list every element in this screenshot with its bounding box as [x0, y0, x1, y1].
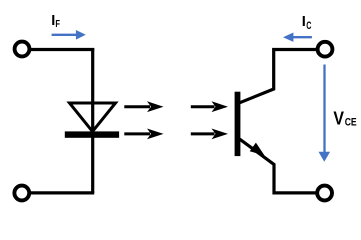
current arrow I_F (blue): [52, 30, 86, 40]
label I_F: [51, 13, 60, 30]
phototransistor Q1: base bar: [235, 92, 241, 156]
phototransistor Q1: emitter arrowhead: [250, 143, 265, 156]
LED D1: cathode bar: [65, 131, 119, 137]
current arrow I_C (blue): [283, 33, 312, 42]
voltage arrow V_CE (blue): [319, 65, 331, 162]
svg-text:CE: CE: [345, 116, 357, 128]
wire: left vertical through LED: [91, 48, 94, 193]
svg-text:I: I: [302, 14, 306, 30]
LED D1: triangle (anode): [70, 103, 116, 132]
label V_CE: [333, 108, 356, 129]
light emission arrow 2 (lower, from LED): [124, 129, 163, 140]
terminal (emitter, bottom-right): [317, 186, 332, 201]
phototransistor Q1: collector lead: [240, 50, 317, 103]
svg-text:F: F: [55, 19, 60, 30]
terminal (LED anode, top-left): [15, 42, 30, 57]
wire: top-left horizontal from anode terminal: [31, 48, 94, 51]
wire: bottom-left horizontal to cathode terminal: [31, 191, 94, 194]
label I_C: [302, 14, 312, 32]
svg-text:C: C: [306, 20, 311, 32]
svg-text:V: V: [333, 108, 344, 129]
terminal (collector, top-right): [318, 42, 333, 57]
phototransistor Q1: emitter lead: [240, 139, 317, 193]
light arrow 4 (lower, into phototransistor): [191, 129, 228, 140]
light arrow 3 (upper, into phototransistor): [191, 101, 228, 112]
terminal (LED cathode, bottom-left): [14, 186, 29, 201]
light emission arrow 1 (upper, from LED): [124, 101, 163, 112]
